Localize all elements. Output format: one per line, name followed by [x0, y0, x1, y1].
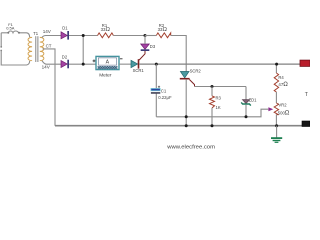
node dot sense/SCR2: [185, 115, 188, 118]
svg-text:500Ω: 500Ω: [278, 110, 290, 117]
node dot R4 top: [275, 63, 278, 66]
node dot R3 top: [211, 85, 214, 88]
wire R4 to VR2: [275, 92, 277, 103]
svg-text:ZD1: ZD1: [249, 98, 258, 103]
wire secondary bottom lead 14V: [42, 61, 61, 64]
svg-text:www.elecfree.com: www.elecfree.com: [166, 145, 215, 151]
wire meter to SCR1: [119, 63, 131, 65]
fuse F1: [8, 31, 18, 33]
node dot R1/R2: [144, 34, 147, 37]
svg-text:SCR2: SCR2: [190, 68, 202, 73]
zener ZD1: [241, 87, 257, 117]
wire R2 corner down to SCR2: [171, 36, 187, 72]
label meter plus: [93, 60, 96, 63]
ground: [271, 126, 282, 143]
resistor R2: [156, 33, 170, 38]
svg-text:VR2: VR2: [278, 102, 287, 107]
node dot R3/rail: [211, 124, 214, 127]
svg-text:C1: C1: [161, 89, 167, 94]
wire center tap CT: [43, 49, 56, 126]
svg-text:47Ω: 47Ω: [278, 81, 288, 88]
svg-text:D1: D1: [62, 26, 68, 31]
node dot VR2/rail: [275, 124, 278, 127]
svg-text:D2: D2: [62, 55, 68, 60]
battery positive terminal box: [300, 60, 310, 66]
wire joining node column: [82, 36, 84, 65]
potentiometer VR2: [274, 102, 290, 116]
wiper arrow VR2: [268, 107, 273, 111]
wire SCR1 cathode to rail: [139, 63, 300, 65]
resistor R4: [274, 73, 288, 92]
SCR2: [180, 68, 202, 86]
svg-text:14V: 14V: [42, 65, 51, 70]
wire AC loop left/top/bottom with plug gap: [0, 33, 29, 65]
transformer T1 secondary coil: [40, 37, 44, 60]
resistor R1: [98, 33, 114, 38]
wire gate rail: [195, 86, 247, 88]
wire D3 to SCR1 gate: [139, 51, 145, 60]
svg-text:33Ω: 33Ω: [101, 27, 111, 33]
resistor R3: [210, 87, 222, 126]
battery negative terminal box: [302, 121, 310, 127]
wire VR2 to bottom rail: [275, 115, 277, 126]
node dot top: [82, 34, 85, 37]
svg-text:0.22μF: 0.22μF: [158, 95, 172, 100]
svg-text:R3: R3: [216, 96, 222, 101]
wire secondary top lead 14V: [42, 35, 61, 37]
svg-text:SCR1: SCR1: [133, 68, 145, 73]
transformer T1 core: [35, 36, 37, 62]
svg-text:T1: T1: [33, 31, 39, 36]
diode D2: [61, 55, 69, 69]
wire SCR2 cathode to bottom rail: [185, 80, 187, 126]
node dot C1 top: [155, 63, 158, 66]
svg-text:33Ω: 33Ω: [158, 27, 168, 33]
svg-text:1K: 1K: [216, 105, 221, 110]
SCR1: [131, 59, 144, 73]
svg-text:R4: R4: [278, 75, 284, 80]
node dot sense/ZD1: [245, 115, 248, 118]
capacitor C1: [151, 64, 172, 117]
svg-text:A: A: [106, 60, 110, 66]
node dot bottom: [82, 63, 85, 66]
svg-text:Meter: Meter: [99, 72, 112, 78]
meter A: [96, 56, 119, 69]
wire rail to R4: [275, 64, 277, 73]
transformer T1 primary coil: [28, 37, 32, 60]
svg-text:14V: 14V: [43, 29, 52, 34]
label meter minus: [120, 58, 123, 60]
svg-text:0.5A: 0.5A: [6, 26, 15, 31]
svg-text:D3: D3: [150, 44, 156, 49]
wire node to D3: [144, 36, 146, 45]
wire D1 to node: [69, 35, 98, 37]
bottom rail: [55, 125, 302, 127]
wire D2 to node: [69, 63, 96, 65]
diode D1: [61, 26, 69, 40]
diode D3: [141, 44, 156, 51]
wire sense line C1 to wiper: [156, 109, 268, 117]
wire R1 to node: [113, 35, 145, 37]
wire node to R2: [145, 35, 156, 37]
node dot SCR2/rail: [185, 124, 188, 127]
svg-text:T: T: [305, 92, 309, 98]
svg-text:CT: CT: [46, 44, 52, 49]
